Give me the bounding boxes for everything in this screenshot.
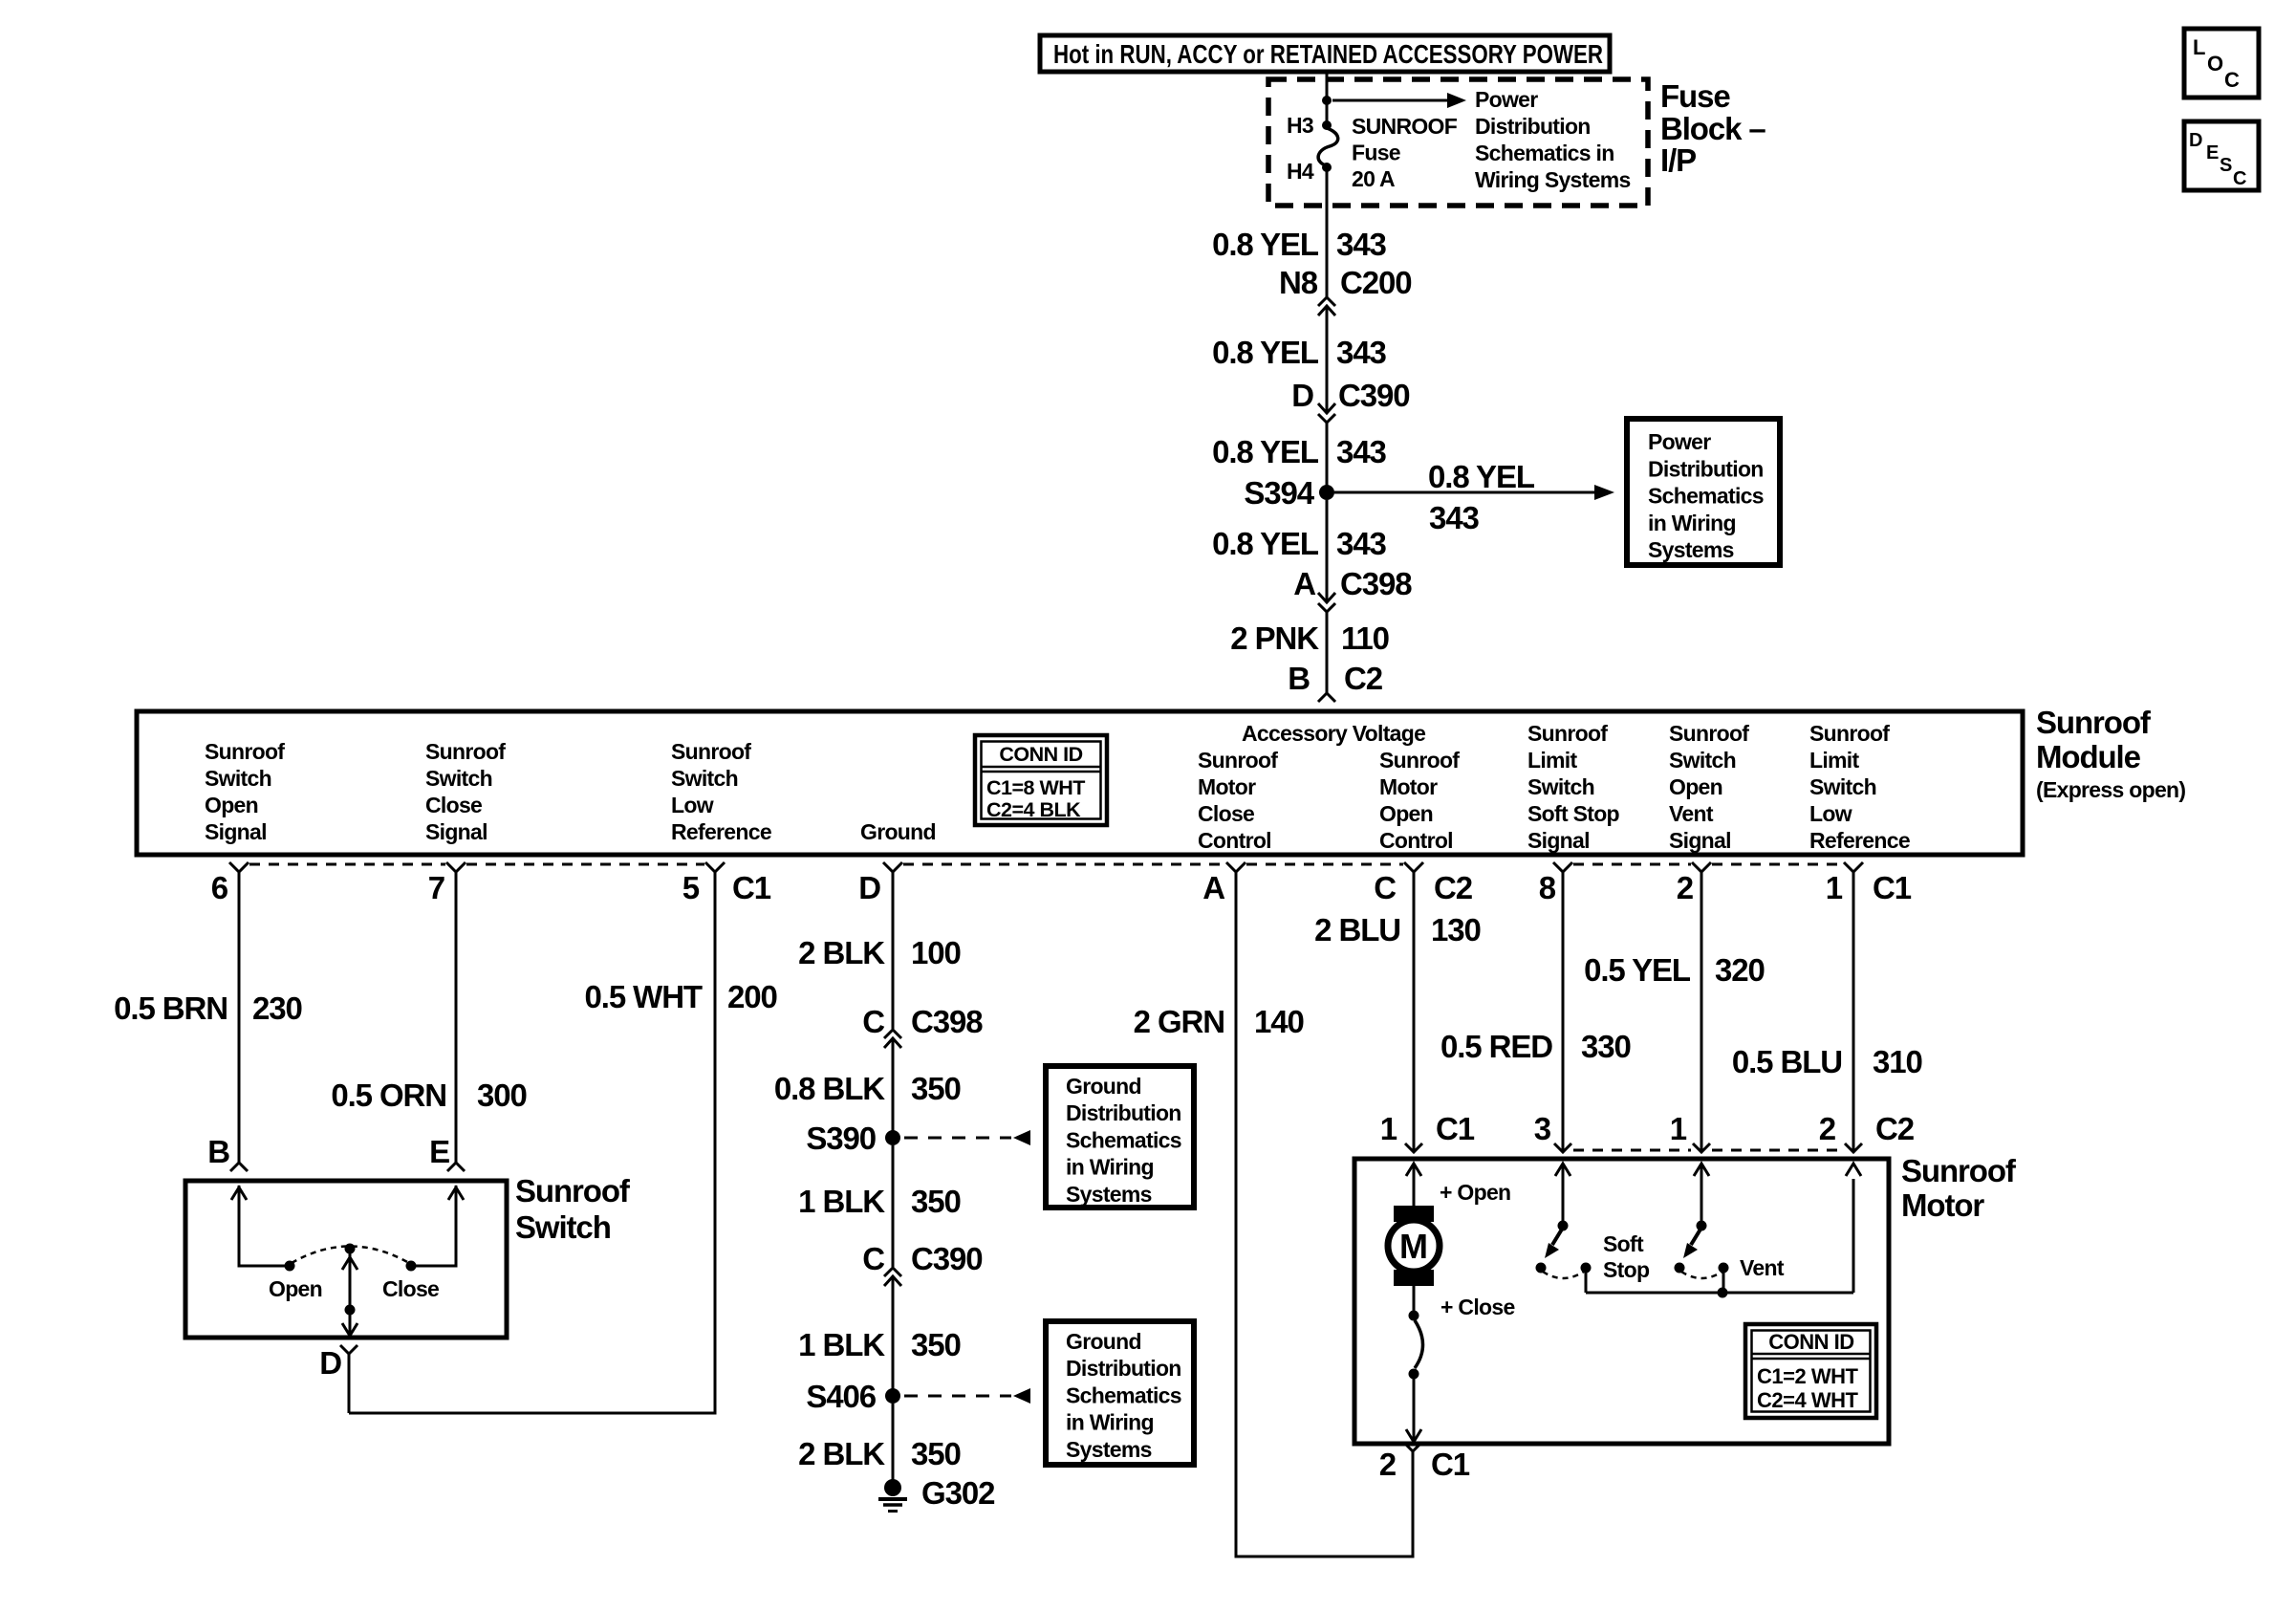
- motor pin 1 connector chevron: [1693, 1143, 1710, 1152]
- svg-text:2: 2: [1819, 1111, 1836, 1146]
- svg-text:Systems: Systems: [1066, 1182, 1152, 1207]
- connector C398 male half: [1318, 593, 1335, 602]
- svg-text:6: 6: [211, 870, 228, 905]
- ground connector C390 male half: [884, 1276, 901, 1286]
- svg-text:Reference: Reference: [671, 819, 771, 844]
- svg-text:Schematics: Schematics: [1066, 1127, 1181, 1152]
- motor connector C2 dashed line (pins 1-2): [1712, 1149, 1843, 1152]
- svg-text:N8: N8: [1279, 265, 1318, 300]
- svg-text:D: D: [1291, 378, 1313, 413]
- svg-text:Sunroof: Sunroof: [1669, 721, 1749, 746]
- svg-text:O: O: [2207, 52, 2223, 76]
- svg-text:M: M: [1399, 1227, 1428, 1266]
- svg-text:1: 1: [1670, 1111, 1687, 1146]
- svg-text:C1: C1: [1436, 1111, 1475, 1146]
- svg-text:140: 140: [1254, 1004, 1304, 1039]
- connector C2 dashed line (pins A-C): [1246, 863, 1403, 866]
- svg-text:CONN ID: CONN ID: [1768, 1330, 1853, 1354]
- module pin C connector chevron: [1404, 862, 1423, 872]
- svg-text:Motor: Motor: [1379, 774, 1438, 799]
- svg-text:C: C: [862, 1241, 884, 1276]
- wire from power source into fuse block: [1326, 72, 1329, 122]
- svg-text:Close: Close: [382, 1276, 439, 1301]
- svg-text:C2: C2: [1875, 1111, 1915, 1146]
- node junction above fuse: [1322, 96, 1332, 105]
- svg-text:0.8 YEL: 0.8 YEL: [1428, 459, 1535, 494]
- svg-text:2 PNK: 2 PNK: [1230, 620, 1319, 656]
- motor internal arrow pin3: [1555, 1164, 1570, 1176]
- svg-text:Schematics in: Schematics in: [1475, 141, 1614, 165]
- connector C390 male half: [1318, 403, 1335, 413]
- svg-text:SUNROOF: SUNROOF: [1352, 114, 1458, 139]
- svg-text:2 GRN: 2 GRN: [1134, 1004, 1224, 1039]
- svg-text:Sunroof: Sunroof: [1901, 1153, 2017, 1188]
- wire 0.5 ORN 300 (pin7 to switch E): [455, 872, 458, 1163]
- wire 2 PNK 110 from C398 to module pin B: [1326, 612, 1329, 693]
- svg-text:in Wiring: in Wiring: [1066, 1410, 1154, 1435]
- svg-text:100: 100: [911, 935, 961, 970]
- svg-text:C1=8 WHT: C1=8 WHT: [986, 776, 1085, 799]
- vent switch wire from pin1: [1700, 1164, 1703, 1226]
- motor close switch blade arc: [1415, 1320, 1423, 1368]
- wire 0.5 WHT 200 (pin5 low reference down and left): [349, 872, 715, 1413]
- ground connector C398 male half: [884, 1038, 901, 1048]
- svg-text:2 BLU: 2 BLU: [1314, 912, 1400, 947]
- svg-text:343: 343: [1336, 526, 1387, 561]
- motor internal wire below motor: [1413, 1286, 1416, 1311]
- vent dashed arc: [1681, 1272, 1722, 1278]
- splice S390: [885, 1130, 900, 1145]
- svg-text:300: 300: [477, 1078, 527, 1113]
- svg-text:C: C: [1374, 870, 1396, 905]
- wire 0.8 BLK 350 (C398 to S390): [892, 1038, 895, 1138]
- motor pin 3 connector chevron: [1554, 1143, 1571, 1152]
- wire 0.8 YEL 343 branch to power distribution: [1334, 491, 1594, 494]
- vent contact wire down: [1722, 1272, 1725, 1293]
- svg-text:C: C: [2224, 68, 2240, 92]
- motor internal wire pin1 to motor: [1413, 1164, 1416, 1207]
- svg-text:0.8 YEL: 0.8 YEL: [1212, 335, 1319, 370]
- svg-text:C390: C390: [911, 1241, 983, 1276]
- svg-text:Signal: Signal: [205, 819, 267, 844]
- svg-text:C: C: [2233, 168, 2246, 189]
- svg-text:0.8 BLK: 0.8 BLK: [774, 1071, 885, 1106]
- wire 0.5 BLU 310 (module 1 to motor 2 C2): [1852, 872, 1855, 1152]
- soft stop switch wire from pin3: [1562, 1164, 1565, 1226]
- svg-text:Switch: Switch: [1527, 774, 1594, 799]
- arrowhead to ground distribution note 2: [1013, 1388, 1030, 1404]
- svg-text:D: D: [2189, 130, 2202, 151]
- vent switch blade with arrow: [1683, 1228, 1701, 1258]
- switch internal arrow at pin B: [231, 1187, 247, 1200]
- motor internal bus junction: [1718, 1288, 1728, 1298]
- svg-text:Sunroof: Sunroof: [2036, 705, 2152, 740]
- wire 2 BLK 350 (S406 to G302): [892, 1404, 895, 1480]
- svg-text:2 BLK: 2 BLK: [798, 935, 885, 970]
- vent contact left: [1675, 1263, 1685, 1274]
- svg-text:C2=4 BLK: C2=4 BLK: [986, 798, 1081, 821]
- motor close switch contact bottom: [1409, 1369, 1419, 1380]
- module pin 1 connector chevron: [1844, 862, 1863, 872]
- connector C1 dashed line (pins 6-7-5): [249, 863, 445, 866]
- module pin 2 connector chevron: [1692, 862, 1711, 872]
- svg-text:Switch: Switch: [1809, 774, 1876, 799]
- vent switch pivot: [1697, 1221, 1707, 1231]
- svg-text:Schematics: Schematics: [1066, 1382, 1181, 1407]
- svg-text:Limit: Limit: [1809, 748, 1859, 773]
- wire arrow to power distribution: [1332, 99, 1449, 102]
- svg-text:Signal: Signal: [1669, 828, 1731, 853]
- svg-text:3: 3: [1534, 1111, 1551, 1146]
- power source box (Hot in RUN, ACCY or RETAINED ACCESSORY POWER): [1040, 35, 1610, 72]
- svg-text:Soft Stop: Soft Stop: [1527, 801, 1620, 826]
- switch close contact: [406, 1261, 417, 1272]
- switch pin D connector chevron: [340, 1345, 357, 1354]
- soft stop switch blade with arrow: [1545, 1228, 1563, 1258]
- svg-text:A: A: [1293, 566, 1315, 601]
- svg-text:Open: Open: [269, 1276, 322, 1301]
- svg-text:S: S: [2220, 155, 2232, 176]
- svg-text:310: 310: [1873, 1044, 1922, 1079]
- svg-text:1: 1: [1826, 870, 1843, 905]
- motor pin 1 C1 connector chevron: [1405, 1143, 1422, 1152]
- wire 0.5 YEL 320 (module 2 to motor 1): [1700, 872, 1703, 1152]
- switch common mid dot: [345, 1305, 356, 1316]
- motor pin 2 C1 connector chevron: [1404, 1443, 1421, 1451]
- svg-text:320: 320: [1715, 952, 1765, 988]
- connector C200 female half: [1318, 297, 1335, 306]
- svg-text:Ground: Ground: [1066, 1329, 1141, 1354]
- soft stop switch pivot: [1558, 1221, 1569, 1231]
- switch pin E connector chevron: [447, 1163, 465, 1171]
- svg-text:in Wiring: in Wiring: [1066, 1155, 1154, 1180]
- sunroof module box: [137, 711, 2023, 855]
- svg-text:350: 350: [911, 1071, 961, 1106]
- svg-text:Sunroof: Sunroof: [515, 1173, 631, 1208]
- ground connector C390 female half: [884, 1268, 901, 1276]
- switch common wire to pin D: [349, 1249, 352, 1336]
- svg-text:2 BLK: 2 BLK: [798, 1436, 885, 1471]
- svg-text:C398: C398: [1340, 566, 1412, 601]
- svg-text:in Wiring: in Wiring: [1648, 511, 1736, 535]
- svg-text:(Express open): (Express open): [2036, 777, 2185, 802]
- switch common pivot: [345, 1244, 356, 1254]
- sunroof motor box: [1354, 1159, 1889, 1444]
- soft stop dashed arc: [1543, 1272, 1584, 1278]
- svg-text:Signal: Signal: [1527, 828, 1590, 853]
- switch common arrow up: [342, 1257, 357, 1270]
- LOC reference icon: [2184, 29, 2259, 98]
- svg-text:350: 350: [911, 1327, 961, 1362]
- svg-text:Sunroof: Sunroof: [1379, 748, 1460, 773]
- svg-text:343: 343: [1429, 500, 1480, 535]
- motor internal arrow pin1 vent: [1694, 1164, 1709, 1176]
- motor pin 2 C2 connector chevron: [1845, 1143, 1862, 1152]
- wire 0.8 YEL 343 from C390 to S394: [1326, 423, 1329, 492]
- svg-text:E: E: [2206, 142, 2219, 163]
- svg-text:350: 350: [911, 1184, 961, 1219]
- svg-text:0.8 YEL: 0.8 YEL: [1212, 227, 1319, 262]
- svg-text:343: 343: [1336, 335, 1387, 370]
- svg-text:Distribution: Distribution: [1648, 456, 1764, 481]
- svg-text:Stop: Stop: [1603, 1257, 1650, 1282]
- svg-text:0.5 ORN: 0.5 ORN: [331, 1078, 446, 1113]
- svg-text:C1=2 WHT: C1=2 WHT: [1757, 1364, 1858, 1388]
- svg-text:Switch: Switch: [1669, 748, 1736, 773]
- svg-text:Sunroof: Sunroof: [425, 739, 506, 764]
- connector C1 dashed line (pins 7-5): [466, 863, 704, 866]
- svg-text:0.5 RED: 0.5 RED: [1440, 1029, 1552, 1064]
- dashed reference line from S390: [904, 1137, 1011, 1140]
- connector C1 dashed line (pins 8-2): [1573, 863, 1691, 866]
- svg-text:Low: Low: [1809, 801, 1852, 826]
- svg-text:I/P: I/P: [1660, 142, 1696, 178]
- svg-text:Vent: Vent: [1669, 801, 1714, 826]
- connector C398 female half: [1318, 603, 1335, 612]
- svg-text:Sunroof: Sunroof: [1809, 721, 1890, 746]
- wire 2 BLK 100 (module D to C398): [892, 872, 895, 1029]
- svg-text:C2: C2: [1434, 870, 1473, 905]
- motor M1 symbol: [1388, 1206, 1440, 1286]
- svg-text:Systems: Systems: [1066, 1437, 1152, 1462]
- svg-text:0.5 WHT: 0.5 WHT: [585, 979, 703, 1014]
- svg-text:Close: Close: [425, 793, 482, 817]
- motor internal arrow at bottom pin: [1406, 1429, 1421, 1442]
- svg-text:Reference: Reference: [1809, 828, 1910, 853]
- wire 0.8 YEL 343 from S394 to C398: [1326, 500, 1329, 601]
- svg-text:Vent: Vent: [1740, 1255, 1785, 1280]
- wire 2 BLU 130 (module C to motor 1 C1): [1413, 872, 1416, 1152]
- motor internal wire to bottom pin: [1413, 1379, 1416, 1442]
- splice S394: [1319, 485, 1334, 500]
- sunroof switch box: [185, 1181, 507, 1338]
- svg-text:2: 2: [1677, 870, 1694, 905]
- svg-text:Open: Open: [1669, 774, 1722, 799]
- motor connector C2 dashed line (pins 3-1): [1573, 1149, 1691, 1152]
- wire 0.8 YEL 343 from C200 to C390: [1326, 306, 1329, 412]
- svg-text:C390: C390: [1338, 378, 1410, 413]
- svg-text:H3: H3: [1287, 113, 1313, 138]
- svg-text:350: 350: [911, 1436, 961, 1471]
- svg-text:1 BLK: 1 BLK: [798, 1327, 885, 1362]
- svg-text:C1: C1: [732, 870, 771, 905]
- svg-text:1: 1: [1380, 1111, 1397, 1146]
- svg-text:1 BLK: 1 BLK: [798, 1184, 885, 1219]
- svg-text:Switch: Switch: [671, 766, 738, 791]
- arrowhead to ground distribution note 1: [1013, 1130, 1030, 1145]
- svg-text:343: 343: [1336, 434, 1387, 469]
- svg-text:E: E: [429, 1134, 449, 1169]
- svg-text:343: 343: [1336, 227, 1387, 262]
- soft stop contact left: [1536, 1263, 1547, 1274]
- svg-text:Block –: Block –: [1660, 111, 1765, 146]
- svg-text:A: A: [1202, 870, 1224, 905]
- reference box ground distribution 1: [1046, 1066, 1194, 1208]
- svg-text:Motor: Motor: [1198, 774, 1256, 799]
- svg-text:Switch: Switch: [515, 1209, 611, 1245]
- wire 1 BLK 350 (S390 to C390): [892, 1145, 895, 1267]
- svg-text:G302: G302: [921, 1475, 995, 1511]
- svg-text:+ Close: + Close: [1440, 1295, 1515, 1319]
- svg-text:Module: Module: [2036, 739, 2141, 774]
- svg-text:Hot in RUN, ACCY or RETAINED A: Hot in RUN, ACCY or RETAINED ACCESSORY P…: [1053, 39, 1603, 69]
- svg-text:0.8 YEL: 0.8 YEL: [1212, 434, 1319, 469]
- svg-text:Ground: Ground: [1066, 1074, 1141, 1099]
- DESC reference icon: [2184, 121, 2259, 190]
- svg-text:230: 230: [252, 991, 302, 1026]
- switch wire arrow at box bottom: [342, 1323, 357, 1336]
- wire 2 GRN 140 (module A to motor 2 C1): [1236, 872, 1413, 1557]
- svg-text:Control: Control: [1379, 828, 1453, 853]
- pin H3 terminal: [1322, 120, 1332, 130]
- switch internal wire from pin B: [239, 1186, 285, 1266]
- svg-text:CONN ID: CONN ID: [999, 743, 1082, 766]
- wire from switch pin D to low reference: [348, 1354, 351, 1413]
- switch pin B connector chevron: [230, 1163, 248, 1171]
- svg-text:C2=4 WHT: C2=4 WHT: [1757, 1388, 1858, 1412]
- svg-text:0.5 YEL: 0.5 YEL: [1584, 952, 1691, 988]
- svg-text:0.8 YEL: 0.8 YEL: [1212, 526, 1319, 561]
- fuse SUNROOF 20A element (S-curve): [1318, 128, 1338, 165]
- wire 0.5 BRN 230 (pin6 to switch B): [238, 872, 241, 1163]
- wire 1 BLK 350 (C390 to S406): [892, 1276, 895, 1396]
- svg-text:Fuse: Fuse: [1352, 141, 1400, 165]
- motor close switch contact top: [1409, 1311, 1419, 1321]
- svg-text:Open: Open: [1379, 801, 1433, 826]
- svg-text:2: 2: [1379, 1447, 1397, 1482]
- svg-text:C1: C1: [1873, 870, 1912, 905]
- pin H4 terminal: [1322, 163, 1332, 172]
- svg-text:D: D: [858, 870, 880, 905]
- svg-text:C2: C2: [1344, 661, 1383, 696]
- svg-text:Low: Low: [671, 793, 714, 817]
- svg-text:200: 200: [727, 979, 777, 1014]
- svg-text:Switch: Switch: [205, 766, 271, 791]
- svg-text:Control: Control: [1198, 828, 1271, 853]
- svg-text:S406: S406: [806, 1379, 876, 1414]
- svg-text:Sunroof: Sunroof: [671, 739, 751, 764]
- motor internal arrow pin1 C1: [1406, 1164, 1421, 1176]
- arrowhead to power distribution note: [1447, 93, 1466, 108]
- switch internal arrow at pin E: [448, 1187, 464, 1200]
- soft stop contact right: [1581, 1263, 1592, 1274]
- svg-text:S394: S394: [1244, 475, 1314, 511]
- svg-text:330: 330: [1581, 1029, 1631, 1064]
- module pin D connector chevron: [883, 862, 902, 872]
- svg-text:Ground: Ground: [860, 819, 936, 844]
- svg-text:0.5 BLU: 0.5 BLU: [1732, 1044, 1842, 1079]
- module pin 8 connector chevron: [1553, 862, 1572, 872]
- svg-text:L: L: [2193, 35, 2205, 59]
- svg-text:Accessory Voltage: Accessory Voltage: [1242, 721, 1425, 746]
- module CONN ID table: [975, 735, 1107, 825]
- motor CONN ID table: [1745, 1324, 1876, 1418]
- svg-text:C: C: [862, 1004, 884, 1039]
- reference box power distribution schematics: [1627, 419, 1780, 565]
- dashed reference line from S406: [904, 1395, 1011, 1398]
- svg-text:Distribution: Distribution: [1066, 1356, 1181, 1381]
- splice S406: [885, 1388, 900, 1404]
- svg-text:130: 130: [1431, 912, 1481, 947]
- svg-text:Distribution: Distribution: [1066, 1100, 1181, 1125]
- switch blade dashed arc: [292, 1247, 409, 1264]
- svg-text:Wiring Systems: Wiring Systems: [1475, 167, 1631, 192]
- svg-text:Motor: Motor: [1901, 1187, 1984, 1223]
- reference box ground distribution 2: [1046, 1321, 1194, 1465]
- fuse block I/P dashed boundary: [1268, 79, 1648, 206]
- wire 0.8 YEL 343 from fuse H4 to C200: [1326, 169, 1329, 297]
- ground connector C398 female half: [884, 1030, 901, 1038]
- svg-text:Fuse: Fuse: [1660, 78, 1730, 114]
- svg-text:5: 5: [682, 870, 700, 905]
- svg-text:Soft: Soft: [1603, 1231, 1644, 1256]
- arrowhead branch to power distribution: [1594, 485, 1614, 500]
- svg-text:Sunroof: Sunroof: [205, 739, 285, 764]
- connector C390 female half: [1318, 414, 1335, 423]
- connector C1 dashed line (pins 2-1): [1712, 863, 1843, 866]
- switch open contact: [285, 1261, 295, 1272]
- svg-text:+ Open: + Open: [1440, 1180, 1510, 1205]
- svg-text:20 A: 20 A: [1352, 166, 1395, 191]
- svg-text:8: 8: [1539, 870, 1556, 905]
- svg-text:Switch: Switch: [425, 766, 492, 791]
- svg-text:C1: C1: [1431, 1447, 1470, 1482]
- svg-text:Signal: Signal: [425, 819, 487, 844]
- svg-text:Distribution: Distribution: [1475, 114, 1591, 139]
- svg-text:C200: C200: [1340, 265, 1412, 300]
- module pin B connector chevron: [1318, 693, 1335, 702]
- connector C200 male half: [1318, 306, 1335, 316]
- motor internal arrow pin2 C2: [1846, 1164, 1861, 1176]
- motor internal bus wire: [1586, 1292, 1853, 1295]
- module pin A connector chevron: [1226, 862, 1245, 872]
- svg-text:B: B: [207, 1134, 229, 1169]
- svg-text:Schematics: Schematics: [1648, 484, 1764, 509]
- ground G302 symbol: [878, 1479, 907, 1512]
- motor internal wire bus to pin2 C2: [1852, 1179, 1855, 1293]
- wire 0.5 RED 330 (module 8 to motor 3): [1562, 872, 1565, 1152]
- connector C2 dashed line (pins D-A): [903, 863, 1225, 866]
- svg-text:0.5 BRN: 0.5 BRN: [114, 991, 227, 1026]
- svg-text:7: 7: [428, 870, 444, 905]
- svg-text:110: 110: [1341, 620, 1389, 656]
- svg-text:H4: H4: [1287, 159, 1314, 184]
- soft stop contact wire down: [1585, 1272, 1588, 1293]
- svg-text:Open: Open: [205, 793, 258, 817]
- switch internal wire from pin E: [416, 1186, 456, 1266]
- module pin 6 connector chevron: [229, 862, 249, 872]
- svg-text:Close: Close: [1198, 801, 1254, 826]
- svg-text:C398: C398: [911, 1004, 983, 1039]
- svg-text:D: D: [319, 1345, 341, 1381]
- svg-text:Sunroof: Sunroof: [1527, 721, 1608, 746]
- module pin 5 connector chevron: [705, 862, 725, 872]
- svg-text:Limit: Limit: [1527, 748, 1577, 773]
- svg-text:Power: Power: [1648, 429, 1711, 454]
- vent contact right: [1719, 1263, 1729, 1274]
- svg-text:Sunroof: Sunroof: [1198, 748, 1278, 773]
- svg-text:S390: S390: [806, 1121, 876, 1156]
- svg-text:Power: Power: [1475, 87, 1538, 112]
- svg-text:Systems: Systems: [1648, 537, 1734, 562]
- svg-text:B: B: [1288, 661, 1310, 696]
- module pin 7 connector chevron: [446, 862, 466, 872]
